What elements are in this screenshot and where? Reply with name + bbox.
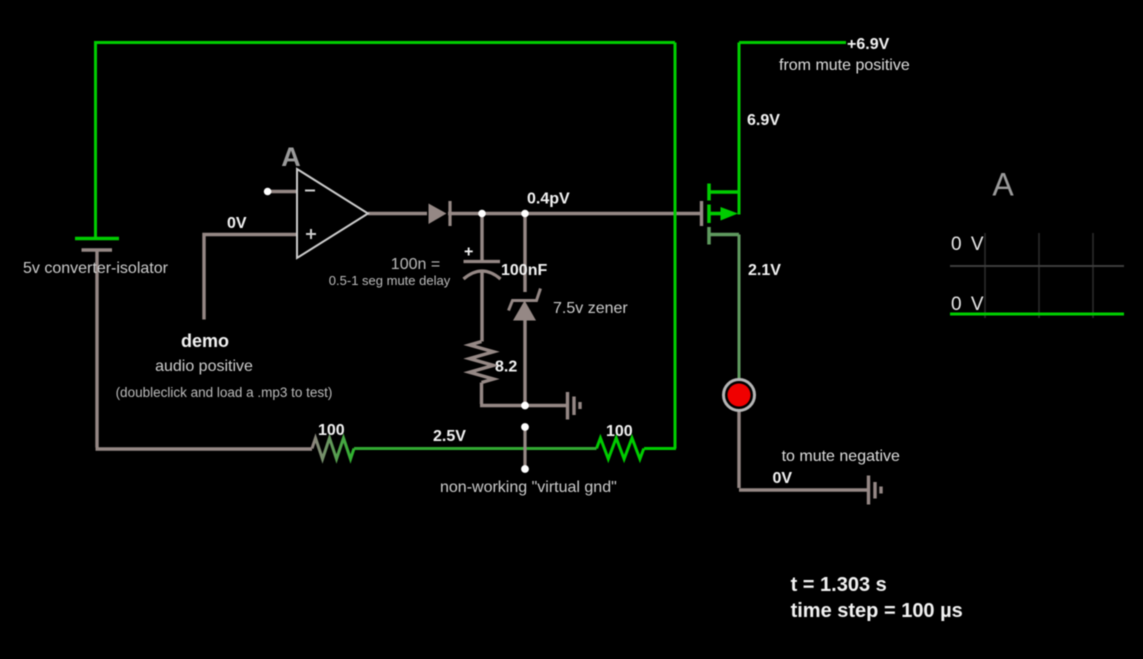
- svg-text:(doubleclick and load a .mp3 t: (doubleclick and load a .mp3 to test): [116, 385, 333, 400]
- svg-text:0.4pV: 0.4pV: [527, 191, 570, 208]
- svg-text:t = 1.303 s: t = 1.303 s: [791, 574, 887, 596]
- svg-text:100: 100: [318, 422, 345, 439]
- svg-text:100: 100: [606, 423, 633, 440]
- svg-text:6.9V: 6.9V: [747, 112, 780, 129]
- svg-text:A: A: [992, 167, 1014, 203]
- svg-text:5v converter-isolator: 5v converter-isolator: [23, 260, 169, 277]
- svg-text:8.2: 8.2: [495, 359, 517, 376]
- svg-text:0 V: 0 V: [951, 234, 986, 255]
- svg-text:100nF: 100nF: [501, 262, 547, 279]
- svg-text:2.5V: 2.5V: [433, 428, 466, 445]
- svg-text:7.5v zener: 7.5v zener: [553, 300, 628, 317]
- svg-text:+6.9V: +6.9V: [847, 36, 890, 53]
- svg-text:0V: 0V: [773, 470, 793, 487]
- svg-text:non-working "virtual gnd": non-working "virtual gnd": [440, 479, 617, 496]
- svg-text:time step = 100 µs: time step = 100 µs: [791, 600, 963, 622]
- svg-text:0V: 0V: [227, 215, 247, 232]
- svg-text:from mute positive: from mute positive: [779, 57, 910, 74]
- svg-text:0.5-1 seg mute delay: 0.5-1 seg mute delay: [329, 273, 451, 288]
- svg-text:to mute negative: to mute negative: [782, 448, 900, 465]
- svg-text:demo: demo: [181, 331, 229, 351]
- svg-text:2.1V: 2.1V: [748, 262, 781, 279]
- svg-text:100n =: 100n =: [391, 256, 440, 273]
- svg-text:A: A: [281, 142, 301, 172]
- svg-text:+: +: [464, 244, 473, 261]
- svg-text:0 V: 0 V: [951, 294, 986, 315]
- svg-text:audio positive: audio positive: [155, 358, 253, 375]
